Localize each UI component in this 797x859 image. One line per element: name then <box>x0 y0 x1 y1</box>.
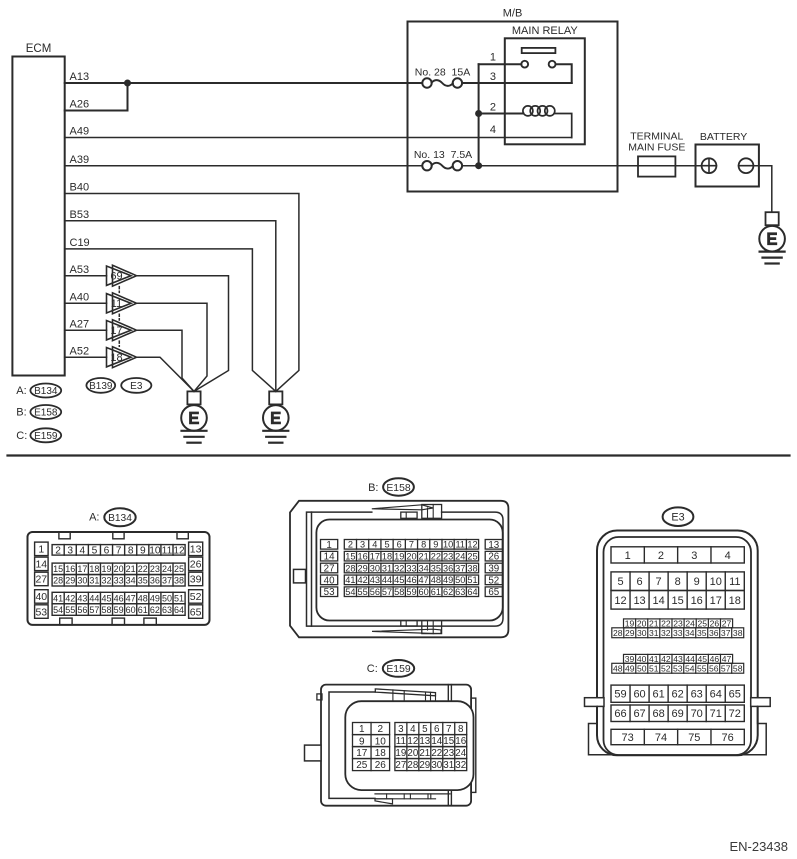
svg-text:32: 32 <box>394 563 404 573</box>
svg-text:19: 19 <box>102 564 112 574</box>
ground E (body) <box>263 391 289 442</box>
svg-text:11: 11 <box>396 736 406 747</box>
svg-text:No. 28 15A: No. 28 15A <box>415 66 470 78</box>
svg-text:61: 61 <box>652 689 664 701</box>
svg-text:3: 3 <box>67 546 73 557</box>
svg-text:62: 62 <box>672 689 684 701</box>
svg-text:ECM: ECM <box>26 43 52 55</box>
svg-text:37: 37 <box>455 563 465 573</box>
svg-text:B:: B: <box>16 407 26 419</box>
E159 pin face <box>345 701 473 790</box>
svg-text:A26: A26 <box>70 99 90 111</box>
svg-text:42: 42 <box>357 575 367 585</box>
svg-text:6: 6 <box>104 546 110 557</box>
svg-text:B53: B53 <box>70 209 90 221</box>
wire shield 18 to ground <box>137 357 195 391</box>
svg-text:54: 54 <box>345 587 355 597</box>
svg-text:53: 53 <box>673 663 683 673</box>
svg-text:51: 51 <box>467 575 477 585</box>
svg-text:8: 8 <box>458 724 464 735</box>
svg-text:29: 29 <box>419 760 430 771</box>
svg-text:71: 71 <box>710 708 722 720</box>
svg-text:64: 64 <box>710 689 722 701</box>
svg-text:70: 70 <box>691 708 703 720</box>
svg-text:16: 16 <box>65 564 75 574</box>
svg-text:58: 58 <box>733 663 743 673</box>
battery positive terminal <box>702 158 717 173</box>
svg-text:26: 26 <box>190 559 202 571</box>
relay contact pole 1 <box>521 61 528 68</box>
svg-text:60: 60 <box>419 587 429 597</box>
svg-text:24: 24 <box>455 551 465 561</box>
svg-text:E158: E158 <box>386 483 410 494</box>
fuse No. 28 15A <box>422 78 462 87</box>
svg-text:30: 30 <box>370 563 380 573</box>
svg-text:11: 11 <box>729 576 740 588</box>
svg-text:16: 16 <box>691 595 703 607</box>
svg-text:33: 33 <box>673 628 683 638</box>
svg-text:B134: B134 <box>34 386 58 397</box>
svg-text:63: 63 <box>162 605 172 615</box>
svg-text:E159: E159 <box>34 431 58 442</box>
wire A39 (ECM to fuse No.13) <box>65 165 424 167</box>
svg-text:60: 60 <box>633 689 645 701</box>
svg-text:21: 21 <box>126 564 136 574</box>
svg-text:22: 22 <box>138 564 148 574</box>
svg-text:6: 6 <box>434 724 440 735</box>
svg-text:59: 59 <box>114 605 124 615</box>
svg-text:18: 18 <box>729 595 741 607</box>
svg-text:48: 48 <box>431 575 441 585</box>
svg-text:48: 48 <box>138 593 148 603</box>
svg-text:29: 29 <box>65 576 75 586</box>
svg-text:A:: A: <box>16 385 26 397</box>
svg-text:69: 69 <box>672 708 684 720</box>
svg-text:50: 50 <box>455 575 465 585</box>
svg-text:12: 12 <box>407 736 418 747</box>
svg-text:52: 52 <box>488 575 499 586</box>
svg-text:6: 6 <box>397 540 402 550</box>
svg-text:20: 20 <box>407 748 418 759</box>
svg-text:2: 2 <box>378 724 384 735</box>
svg-text:17: 17 <box>77 564 87 574</box>
shield symbol 11 <box>107 293 137 314</box>
svg-text:9: 9 <box>140 546 146 557</box>
E159 pin block 3-32 <box>395 723 467 735</box>
svg-text:A13: A13 <box>70 71 90 83</box>
svg-text:35: 35 <box>431 563 441 573</box>
svg-text:B:: B: <box>368 482 378 494</box>
svg-text:17: 17 <box>110 325 122 337</box>
wire A49 (ECM to relay pin 4) <box>65 137 572 139</box>
svg-text:41: 41 <box>345 575 355 585</box>
svg-text:35: 35 <box>697 628 707 638</box>
svg-text:11: 11 <box>162 546 173 557</box>
M/B box <box>408 22 618 192</box>
svg-text:35: 35 <box>138 576 148 586</box>
svg-text:30: 30 <box>637 628 647 638</box>
svg-text:52: 52 <box>661 663 671 673</box>
svg-text:72: 72 <box>729 708 741 720</box>
battery negative terminal <box>739 158 754 173</box>
connector A: B134 housing <box>28 532 210 625</box>
svg-text:3: 3 <box>691 550 697 562</box>
svg-text:45: 45 <box>102 593 112 603</box>
svg-text:65: 65 <box>729 689 741 701</box>
svg-text:7: 7 <box>116 546 122 557</box>
E3 pin rows 59-72 <box>611 685 744 702</box>
svg-text:39: 39 <box>488 564 499 575</box>
svg-text:63: 63 <box>691 689 703 701</box>
connector ref E3 <box>121 378 151 393</box>
main relay box <box>505 38 585 144</box>
svg-text:24: 24 <box>162 564 172 574</box>
svg-text:61: 61 <box>138 605 148 615</box>
relay coil to pin 4 <box>555 114 572 138</box>
svg-text:14: 14 <box>324 552 335 563</box>
svg-text:17: 17 <box>370 551 380 561</box>
svg-text:B139: B139 <box>89 381 113 392</box>
wire B40 <box>65 194 299 392</box>
section separator <box>8 454 790 456</box>
svg-text:74: 74 <box>655 732 667 744</box>
wire A52 (ECM to shield 18) <box>65 356 107 358</box>
svg-text:A39: A39 <box>70 154 90 166</box>
svg-text:69: 69 <box>110 271 122 283</box>
svg-text:34: 34 <box>126 576 136 586</box>
E3 pin row 73-76 <box>611 729 744 744</box>
wire A53 (ECM to shield 69) <box>65 275 107 277</box>
wire M/B bus vertical <box>478 64 480 166</box>
svg-text:26: 26 <box>488 552 499 563</box>
svg-text:5: 5 <box>617 576 623 588</box>
shield symbol 18 <box>107 347 137 368</box>
relay contact bar <box>522 48 556 53</box>
svg-text:42: 42 <box>65 593 75 603</box>
svg-text:EN-23438: EN-23438 <box>729 839 788 854</box>
ECM box <box>12 57 64 376</box>
svg-text:33: 33 <box>406 563 416 573</box>
junction A13/A26 <box>125 80 131 86</box>
svg-text:56: 56 <box>709 663 719 673</box>
svg-text:29: 29 <box>625 628 635 638</box>
svg-text:39: 39 <box>190 574 202 586</box>
B134 left pin column 1-53 <box>35 542 49 556</box>
svg-text:1: 1 <box>359 724 365 735</box>
svg-text:62: 62 <box>443 587 453 597</box>
svg-text:23: 23 <box>150 564 160 574</box>
svg-text:22: 22 <box>431 748 442 759</box>
E3 pin rows 5-18 <box>611 572 744 591</box>
svg-text:17: 17 <box>710 595 722 607</box>
svg-text:20: 20 <box>406 551 416 561</box>
svg-text:44: 44 <box>89 593 99 603</box>
svg-text:53: 53 <box>324 587 335 598</box>
svg-text:22: 22 <box>431 551 441 561</box>
E3 pin rows 19-38 <box>624 619 733 628</box>
svg-text:12: 12 <box>467 540 477 550</box>
svg-text:54: 54 <box>685 663 695 673</box>
B134 pin rows 41-64 <box>52 592 185 604</box>
wire relay pin 2 <box>479 113 524 115</box>
svg-text:2: 2 <box>55 546 61 557</box>
svg-text:65: 65 <box>190 606 202 618</box>
junction M/B bus at pin2 <box>476 111 482 117</box>
junction M/B bus at No.13 line <box>476 163 482 169</box>
svg-text:49: 49 <box>625 663 635 673</box>
svg-text:No. 13 7.5A: No. 13 7.5A <box>414 149 472 161</box>
svg-text:13: 13 <box>633 595 645 607</box>
svg-text:11: 11 <box>111 298 122 310</box>
svg-text:18: 18 <box>89 564 99 574</box>
svg-text:76: 76 <box>722 732 734 744</box>
wire battery to ground <box>753 166 771 213</box>
svg-text:13: 13 <box>190 544 202 556</box>
wire C19 <box>65 249 276 392</box>
svg-text:23: 23 <box>443 551 453 561</box>
svg-text:31: 31 <box>443 760 454 771</box>
svg-text:15: 15 <box>53 564 63 574</box>
svg-text:A49: A49 <box>70 126 90 138</box>
svg-text:E159: E159 <box>386 664 410 675</box>
svg-text:3: 3 <box>490 71 496 83</box>
svg-text:2: 2 <box>490 102 496 114</box>
svg-text:12: 12 <box>173 546 185 557</box>
svg-text:26: 26 <box>375 760 387 771</box>
svg-text:M/B: M/B <box>503 8 523 20</box>
B134 right pin column 13-65 <box>189 542 203 556</box>
svg-text:56: 56 <box>370 587 380 597</box>
svg-text:37: 37 <box>721 628 731 638</box>
svg-text:56: 56 <box>77 605 87 615</box>
connector B label <box>368 478 414 495</box>
svg-text:67: 67 <box>633 708 645 720</box>
wire A39 (fuse No.13 to battery +) <box>462 165 702 167</box>
svg-text:A52: A52 <box>70 345 90 357</box>
svg-text:28: 28 <box>53 576 63 586</box>
shield drain dotted link <box>118 287 120 347</box>
svg-text:25: 25 <box>356 760 368 771</box>
wire shield 17 to ground <box>137 330 195 391</box>
svg-text:32: 32 <box>455 760 466 771</box>
svg-text:19: 19 <box>395 748 406 759</box>
svg-text:15: 15 <box>672 595 684 607</box>
legend B: E158 <box>16 405 61 419</box>
svg-text:7: 7 <box>409 540 414 550</box>
ground E (battery) <box>759 212 785 263</box>
wire relay pin 1 <box>479 63 522 65</box>
svg-text:65: 65 <box>488 587 499 598</box>
svg-text:25: 25 <box>174 564 184 574</box>
svg-text:50: 50 <box>162 593 172 603</box>
svg-text:4: 4 <box>79 546 85 557</box>
E158 pin rows 2-64 <box>344 540 478 550</box>
svg-text:40: 40 <box>324 575 335 586</box>
svg-text:47: 47 <box>126 593 136 603</box>
svg-text:46: 46 <box>406 575 416 585</box>
svg-text:8: 8 <box>675 576 681 588</box>
svg-text:5: 5 <box>92 546 98 557</box>
ground E (shield) <box>181 391 207 442</box>
E3 pin row 1-4 <box>611 547 744 563</box>
wire B53 <box>65 221 276 392</box>
svg-text:3: 3 <box>360 540 365 550</box>
svg-text:31: 31 <box>382 563 392 573</box>
connector C label <box>367 660 414 677</box>
svg-text:58: 58 <box>102 605 112 615</box>
E3 pin rows 39-58 <box>624 654 733 663</box>
svg-text:55: 55 <box>357 587 367 597</box>
relay contact pole 2 <box>549 61 556 68</box>
svg-text:44: 44 <box>382 575 392 585</box>
svg-text:16: 16 <box>357 551 367 561</box>
svg-text:57: 57 <box>382 587 392 597</box>
legend A: B134 <box>16 384 61 398</box>
svg-text:4: 4 <box>490 124 496 136</box>
svg-text:40: 40 <box>35 591 47 603</box>
svg-text:B134: B134 <box>108 513 132 524</box>
svg-text:2: 2 <box>348 540 353 550</box>
svg-text:13: 13 <box>419 736 430 747</box>
svg-text:4: 4 <box>410 724 416 735</box>
relay contact to pin 3 <box>556 64 572 83</box>
svg-text:10: 10 <box>710 576 722 588</box>
svg-text:11: 11 <box>456 540 466 550</box>
svg-text:49: 49 <box>150 593 160 603</box>
svg-text:E3: E3 <box>671 512 684 524</box>
svg-text:37: 37 <box>162 576 172 586</box>
svg-text:15: 15 <box>443 736 454 747</box>
svg-text:33: 33 <box>114 576 124 586</box>
svg-text:30: 30 <box>431 760 442 771</box>
svg-text:MAIN FUSE: MAIN FUSE <box>628 142 685 154</box>
svg-text:8: 8 <box>128 546 134 557</box>
svg-text:E3: E3 <box>130 381 143 392</box>
svg-text:28: 28 <box>345 563 355 573</box>
connector B: E158 housing <box>290 501 508 638</box>
svg-text:1: 1 <box>38 544 44 556</box>
shield symbol 69 <box>107 265 137 286</box>
svg-text:73: 73 <box>622 732 634 744</box>
svg-text:21: 21 <box>419 551 429 561</box>
svg-text:49: 49 <box>443 575 453 585</box>
svg-text:38: 38 <box>467 563 477 573</box>
svg-text:7: 7 <box>656 576 662 588</box>
svg-text:6: 6 <box>637 576 643 588</box>
relay coil <box>523 106 555 116</box>
svg-text:34: 34 <box>419 563 429 573</box>
svg-text:24: 24 <box>455 748 466 759</box>
svg-text:15: 15 <box>345 551 355 561</box>
svg-text:57: 57 <box>89 605 99 615</box>
wire A27 (ECM to shield 17) <box>65 329 107 331</box>
svg-text:5: 5 <box>422 724 428 735</box>
svg-text:53: 53 <box>35 606 47 618</box>
svg-text:A:: A: <box>89 512 99 524</box>
battery box <box>696 145 759 187</box>
connector C: E159 housing <box>321 685 471 806</box>
svg-text:14: 14 <box>35 559 47 571</box>
svg-text:14: 14 <box>431 736 442 747</box>
svg-text:64: 64 <box>467 587 477 597</box>
svg-text:21: 21 <box>419 748 430 759</box>
svg-text:B40: B40 <box>70 182 90 194</box>
svg-text:32: 32 <box>661 628 671 638</box>
svg-text:14: 14 <box>652 595 664 607</box>
svg-text:16: 16 <box>455 736 466 747</box>
svg-text:51: 51 <box>649 663 659 673</box>
svg-text:10: 10 <box>443 540 453 550</box>
svg-text:38: 38 <box>174 576 184 586</box>
svg-text:A27: A27 <box>70 318 90 330</box>
svg-text:36: 36 <box>150 576 160 586</box>
svg-text:38: 38 <box>733 628 743 638</box>
svg-text:23: 23 <box>443 748 454 759</box>
svg-text:8: 8 <box>421 540 426 550</box>
legend C: E159 <box>16 428 61 442</box>
svg-text:57: 57 <box>721 663 731 673</box>
svg-text:59: 59 <box>406 587 416 597</box>
svg-text:32: 32 <box>102 576 112 586</box>
svg-text:55: 55 <box>65 605 75 615</box>
svg-text:C:: C: <box>16 430 27 442</box>
wire shield 11 to ground <box>137 303 208 391</box>
svg-text:20: 20 <box>114 564 124 574</box>
svg-text:45: 45 <box>394 575 404 585</box>
svg-text:BATTERY: BATTERY <box>700 131 747 143</box>
svg-text:64: 64 <box>174 605 184 615</box>
connector A label <box>89 508 136 526</box>
svg-text:58: 58 <box>394 587 404 597</box>
connector E3 label <box>663 507 694 526</box>
E158 pin face <box>316 520 502 621</box>
wire A26 <box>65 83 128 111</box>
B134 pin row 2-12 <box>52 545 185 556</box>
svg-text:47: 47 <box>419 575 429 585</box>
svg-text:59: 59 <box>614 689 626 701</box>
svg-text:31: 31 <box>89 576 99 586</box>
svg-text:50: 50 <box>637 663 647 673</box>
svg-text:C19: C19 <box>70 237 90 249</box>
wire shield 69 to ground <box>137 276 229 392</box>
svg-text:1: 1 <box>490 52 496 64</box>
svg-text:4: 4 <box>372 540 377 550</box>
svg-text:10: 10 <box>149 546 161 557</box>
E159 pin block 1-26 <box>353 723 390 735</box>
svg-text:66: 66 <box>614 708 626 720</box>
svg-text:31: 31 <box>649 628 659 638</box>
svg-text:9: 9 <box>694 576 700 588</box>
svg-text:62: 62 <box>150 605 160 615</box>
svg-text:1: 1 <box>326 540 331 551</box>
shield symbol 17 <box>107 320 137 341</box>
svg-text:54: 54 <box>53 605 63 615</box>
svg-text:C:: C: <box>367 663 378 675</box>
svg-text:43: 43 <box>77 593 87 603</box>
svg-text:68: 68 <box>652 708 664 720</box>
terminal main fuse box <box>638 156 675 176</box>
svg-text:46: 46 <box>114 593 124 603</box>
svg-text:18: 18 <box>382 551 392 561</box>
svg-text:MAIN RELAY: MAIN RELAY <box>512 25 578 37</box>
svg-text:75: 75 <box>688 732 700 744</box>
svg-text:1: 1 <box>625 550 631 562</box>
svg-text:63: 63 <box>455 587 465 597</box>
svg-text:28: 28 <box>407 760 418 771</box>
wire A13 (fuse No.28 to relay pin 3) <box>462 82 572 84</box>
wire A40 (ECM to shield 11) <box>65 302 107 304</box>
svg-text:27: 27 <box>35 574 47 586</box>
